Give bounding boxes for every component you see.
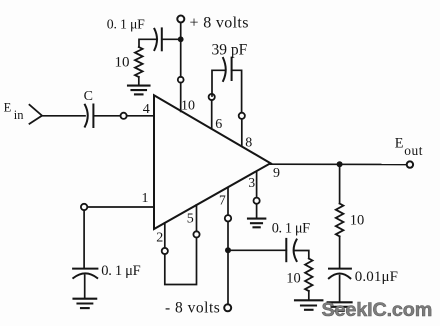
svg-text:0. 1 μF: 0. 1 μF — [272, 220, 310, 236]
wire — [339, 167, 341, 203]
node Ein terminal arrow — [30, 105, 43, 124]
svg-text:10: 10 — [181, 99, 195, 114]
wire — [339, 236, 341, 268]
pin 1 — [142, 191, 149, 206]
capacitor 0.1uF input bypass — [73, 269, 97, 278]
wire — [294, 251, 309, 259]
capacitor 0.01uF — [329, 269, 351, 279]
capacitor C — [85, 105, 94, 128]
capacitor 0.1uF bypass top — [154, 28, 161, 50]
wire pin 5 — [196, 205, 198, 231]
svg-text:0. 1 μF: 0. 1 μF — [107, 16, 145, 31]
pin 10 — [181, 99, 195, 114]
label 0.01uF — [355, 269, 398, 285]
svg-text:+ 8 volts: + 8 volts — [190, 14, 249, 31]
label 0.1uF — [272, 220, 310, 236]
label 0.1uF — [101, 263, 140, 279]
svg-text:out: out — [404, 143, 423, 158]
svg-text:9: 9 — [273, 166, 280, 181]
wire — [339, 276, 341, 301]
svg-text:10: 10 — [115, 54, 130, 70]
svg-text:39 pF: 39 pF — [212, 41, 248, 58]
svg-text:in: in — [14, 108, 24, 122]
ground — [328, 302, 352, 311]
wire — [256, 204, 258, 217]
pin 9 — [273, 166, 280, 181]
label 10 — [286, 270, 301, 286]
node pin3 circle — [254, 198, 260, 204]
svg-text:- 8 volts: - 8 volts — [165, 300, 220, 317]
label Ein — [4, 101, 25, 122]
svg-text:0. 1 μF: 0. 1 μF — [101, 263, 140, 279]
node pin8 circle — [239, 113, 245, 119]
node +8V terminal — [177, 16, 184, 23]
label 39pF — [212, 41, 248, 58]
wire — [180, 42, 182, 77]
svg-text:6: 6 — [215, 117, 222, 132]
node pin6 circle — [209, 94, 215, 100]
label +8 volts — [190, 14, 249, 31]
wire — [180, 23, 182, 38]
wire — [83, 210, 85, 268]
svg-text:C: C — [84, 89, 93, 104]
label 10 — [115, 54, 130, 70]
wire — [165, 238, 197, 285]
label 0.1uF — [107, 16, 145, 31]
svg-text:2: 2 — [156, 231, 163, 246]
wire pin 6 — [211, 100, 213, 129]
wire pin 10 — [180, 83, 182, 112]
node pin7 circle — [225, 215, 231, 221]
pin 7 — [219, 193, 226, 208]
wire 39pF right — [232, 70, 242, 112]
svg-text:SeekIC.com: SeekIC.com — [322, 299, 433, 321]
ground — [74, 299, 97, 308]
wire — [231, 249, 286, 251]
resistor 10 top — [135, 47, 143, 77]
wire pin 2 — [164, 223, 166, 248]
svg-text:1: 1 — [142, 191, 149, 206]
node pin10 circle — [178, 77, 184, 83]
junction output — [337, 161, 343, 167]
wire — [138, 77, 140, 85]
label -8 volts — [165, 300, 220, 317]
wire — [93, 115, 120, 117]
wire — [127, 115, 154, 117]
wire pin 8 — [241, 119, 243, 146]
label C — [84, 89, 93, 104]
wire — [42, 115, 85, 117]
wire — [84, 275, 86, 297]
resistor 10 bottom — [305, 259, 312, 292]
svg-text:4: 4 — [143, 102, 150, 117]
junction pin7 — [225, 247, 231, 253]
svg-text:10: 10 — [286, 270, 301, 286]
ground — [295, 300, 322, 310]
wire output — [271, 163, 407, 165]
wire pin 7 — [227, 188, 229, 216]
svg-text:7: 7 — [219, 193, 226, 208]
wire 39pF left — [212, 70, 225, 96]
ground — [128, 86, 150, 95]
svg-text:0.01μF: 0.01μF — [355, 269, 398, 285]
node input circle — [121, 113, 127, 119]
wire pin 3 — [256, 172, 258, 198]
wire — [162, 38, 178, 40]
ground — [248, 219, 265, 228]
svg-text:3: 3 — [248, 175, 255, 190]
wire pin 1 — [87, 206, 154, 208]
pin 3 — [248, 175, 255, 190]
pin 8 — [245, 135, 252, 150]
node pin5 circle — [193, 231, 199, 237]
wire — [139, 39, 157, 47]
wire — [227, 253, 229, 304]
junction — [178, 36, 184, 42]
node -8V terminal — [224, 304, 231, 311]
op-amp U1 — [154, 95, 271, 229]
svg-text:E: E — [395, 135, 404, 151]
node pin1 circle — [81, 204, 87, 210]
node pin2 circle — [162, 248, 168, 254]
resistor 10 output — [336, 204, 344, 237]
capacitor 39pF — [223, 58, 232, 81]
wire — [227, 222, 229, 248]
capacitor 0.1uF bypass bottom — [286, 239, 296, 261]
pin 6 — [215, 117, 222, 132]
label 10 — [350, 212, 365, 228]
node Eout terminal — [407, 161, 413, 167]
wire — [308, 291, 310, 299]
svg-text:5: 5 — [187, 211, 194, 226]
svg-text:10: 10 — [350, 212, 365, 228]
label Eout — [395, 135, 423, 158]
svg-text:E: E — [4, 101, 12, 115]
pin 4 — [143, 102, 150, 117]
pin 5 — [187, 211, 194, 226]
svg-text:8: 8 — [245, 135, 252, 150]
pin 2 — [156, 231, 163, 246]
